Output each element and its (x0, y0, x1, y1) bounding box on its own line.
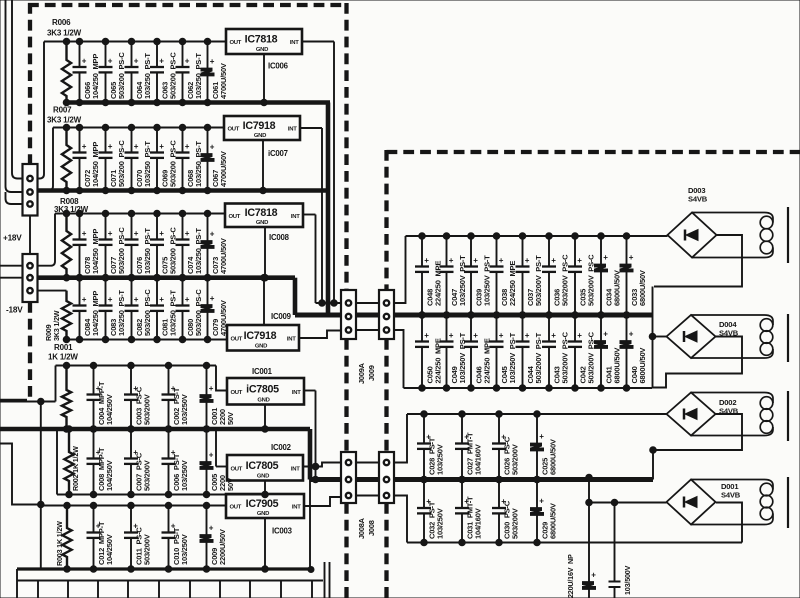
capacitor C077 (99, 210, 127, 281)
capacitor C071 (99, 124, 127, 194)
svg-text:IC009: IC009 (271, 312, 292, 321)
label IC001 (252, 367, 273, 376)
capacitor C002 row5 (162, 362, 190, 432)
wire link J009A-J009 pin 1 (356, 302, 379, 304)
capacitor C042 (568, 312, 596, 392)
resistor R002 (64, 426, 73, 498)
resistor R003 (62, 502, 71, 572)
svg-text:J009: J009 (367, 365, 376, 381)
svg-text:-18V: -18V (6, 306, 23, 315)
svg-text:+: + (134, 57, 139, 66)
svg-text:IC7918: IC7918 (243, 120, 276, 132)
label R007 (53, 106, 72, 115)
svg-text:103/250 PS-T: 103/250 PS-T (194, 141, 203, 187)
svg-text:3K3 1/2W: 3K3 1/2W (52, 310, 61, 341)
svg-text:J009A: J009A (357, 362, 366, 384)
svg-text:OUT: OUT (231, 336, 243, 342)
svg-text:503/200V: 503/200V (511, 444, 520, 475)
wire D004 positive link (653, 336, 667, 338)
svg-text:INT: INT (291, 466, 300, 472)
wire input rail row 4 (67, 339, 228, 341)
capacitor C037 (516, 233, 544, 319)
svg-text:OUT: OUT (230, 40, 242, 46)
label R009 value (52, 310, 61, 341)
svg-text:103/250 PS-T: 103/250 PS-T (143, 53, 152, 99)
svg-text:503/200V: 503/200V (143, 460, 152, 491)
left board dashed border left lower (28, 302, 32, 397)
svg-text:+: + (159, 295, 164, 304)
svg-text:+: + (499, 331, 504, 340)
label R006 (52, 18, 71, 27)
svg-text:+: + (603, 330, 608, 339)
svg-text:6800U/50V: 6800U/50V (613, 348, 622, 384)
svg-text:INT: INT (292, 505, 301, 511)
label 103/500V (623, 565, 632, 595)
svg-text:103/250V PS-T: 103/250V PS-T (458, 255, 467, 306)
svg-text:OUT: OUT (230, 505, 242, 511)
connector J008 (379, 452, 394, 503)
wire IC007 output (300, 127, 322, 129)
capacitor C072 (73, 124, 101, 194)
svg-text:+: + (539, 497, 544, 506)
svg-text:503/200V PS-T: 503/200V PS-T (534, 332, 543, 383)
svg-text:+: + (134, 229, 139, 238)
label IC008 (269, 233, 290, 242)
wire bottom stub 6 (158, 581, 160, 598)
connector J010 (23, 164, 38, 216)
label J008A (357, 517, 366, 539)
svg-text:+: + (629, 330, 634, 339)
svg-text:IC7918: IC7918 (244, 330, 277, 342)
capacitor C069 (150, 124, 178, 194)
capacitor C065 (99, 38, 127, 106)
svg-text:IC7818: IC7818 (245, 34, 278, 46)
wire bottom stub 1 (16, 581, 18, 598)
transformer core line for D004 (787, 314, 789, 362)
capacitor C047 (440, 233, 468, 319)
capacitor C028 right (417, 411, 445, 483)
capacitor C062 (176, 38, 204, 106)
svg-text:+18V: +18V (3, 234, 22, 243)
svg-text:104/250 MPP: 104/250 MPP (91, 142, 100, 187)
svg-text:6800U/50V: 6800U/50V (613, 270, 622, 306)
wire IC008 GND to ground rail (262, 227, 269, 281)
capacitor C033 (620, 233, 647, 319)
wire link J009A-J009 pin 3 (356, 329, 379, 331)
wire ground row 3 drop (thick) (293, 278, 298, 315)
regulator IC002 (227, 455, 303, 481)
svg-text:+: + (209, 451, 214, 460)
wire bottom stub 9 (249, 581, 251, 598)
connector J008A (341, 452, 356, 503)
svg-text:104/250V: 104/250V (105, 534, 114, 565)
svg-text:503/200V PS-C: 503/200V PS-C (561, 331, 570, 383)
label R009 (44, 324, 53, 341)
transformer winding for D004 (691, 315, 773, 358)
svg-text:103/250 PS-T: 103/250 PS-T (194, 228, 203, 274)
capacitor C082 (125, 274, 153, 342)
svg-text:+: + (603, 253, 608, 262)
wire D003/D004 ground drop (649, 287, 656, 389)
capacitor C040 (620, 312, 647, 392)
resistor R008 (62, 210, 71, 281)
transformer core line for D002 (787, 391, 789, 441)
svg-text:+: + (108, 57, 113, 66)
left board dashed border right segment 2 (344, 339, 348, 452)
svg-text:103/250V PS-T: 103/250V PS-T (508, 332, 517, 383)
wire +V rail right row 1 (406, 235, 668, 237)
capacitor C025 (531, 411, 558, 483)
wire +V rail row 1 (44, 41, 226, 43)
svg-text:+: + (82, 57, 87, 66)
svg-text:+: + (159, 57, 164, 66)
regulator IC001 (227, 378, 304, 405)
wire IC009 GND up to ground rail (261, 274, 268, 325)
wire D001 positive link (586, 499, 667, 506)
wire IC001 output (304, 390, 316, 392)
right board dashed border left segment 3 (384, 503, 388, 598)
svg-text:6800U/50V: 6800U/50V (549, 439, 558, 475)
svg-text:103/250V PS-T: 103/250V PS-T (458, 332, 467, 383)
label IC007 (268, 149, 288, 158)
svg-text:104/250 MPP: 104/250 MPP (91, 229, 100, 274)
label C005 voltage (226, 478, 235, 491)
svg-text:104/160V: 104/160V (474, 444, 483, 475)
label C001 voltage (226, 412, 235, 425)
wire ground bus drop to J008A (thick) (308, 429, 313, 480)
wire main ground rail rows 5 (thick) (0, 427, 310, 432)
svg-text:103/250V: 103/250V (180, 460, 189, 491)
capacitor C035 (568, 233, 596, 319)
capacitor C032 right (417, 476, 445, 546)
svg-text:103/250 PS-T: 103/250 PS-T (143, 141, 152, 187)
capacitor C039 (464, 233, 492, 319)
svg-text:2200U/50V: 2200U/50V (218, 529, 227, 565)
regulator IC009 (227, 325, 299, 351)
label C-NP value (566, 554, 575, 598)
wire connector J011 pin 3 to resistor R009 (38, 290, 67, 292)
regulator IC007 (224, 116, 300, 140)
svg-text:GND: GND (254, 133, 266, 139)
svg-text:103/250V PS-T: 103/250V PS-T (483, 255, 492, 306)
capacitor C066 (73, 38, 101, 106)
svg-text:503/200 PS-C: 503/200 PS-C (143, 289, 152, 336)
capacitor C064 (125, 38, 153, 106)
resistor R007 (62, 124, 71, 194)
capacitor 103/500V plates (609, 582, 621, 598)
svg-text:+: + (210, 230, 215, 239)
label D004 type (719, 329, 739, 338)
svg-text:+: + (210, 57, 215, 66)
capacitor C045 (490, 312, 518, 392)
capacitor C079 (201, 274, 228, 342)
label R008 (60, 197, 79, 206)
svg-text:+: + (82, 295, 87, 304)
svg-text:+: + (424, 331, 429, 340)
wire left edge to connector J011 pin 2 (0, 277, 23, 279)
capacitor C034 (595, 233, 622, 319)
svg-text:104/250 MPP: 104/250 MPP (91, 291, 100, 336)
wire bottom stub 10 (280, 581, 282, 598)
wire IC008 output drop (315, 215, 317, 304)
wire row 1 rail drop to connector J010 pin 1 (38, 42, 45, 179)
capacitor C007 row6 (124, 426, 152, 498)
svg-text:+: + (551, 256, 556, 265)
wire IC006 output (302, 41, 334, 43)
label +18V (3, 234, 22, 243)
capacitor C046 (464, 312, 492, 392)
label R008 value (54, 205, 89, 214)
svg-text:IC008: IC008 (269, 233, 290, 242)
svg-text:J008: J008 (367, 520, 376, 536)
capacitor C044 (516, 312, 544, 392)
capacitor C074 (176, 210, 204, 281)
capacitor C050 (415, 312, 443, 392)
capacitor C048 (415, 233, 443, 319)
svg-text:+: + (449, 331, 454, 340)
capacitor C030 right (492, 476, 520, 546)
wire row 3 rail drop to connector J011 pin 1 (38, 214, 56, 266)
wire J008 pin 1 riser (394, 414, 407, 463)
label J009 (367, 365, 376, 381)
svg-text:103/250 PS-T: 103/250 PS-T (143, 228, 152, 274)
connector J009 (379, 290, 394, 339)
wire -V rail right row 2 (404, 387, 653, 389)
svg-text:OUT: OUT (231, 390, 243, 396)
svg-text:+: + (108, 229, 113, 238)
bridge rectifier D004 (667, 315, 716, 358)
capacitor C010 row7 (162, 502, 190, 572)
label D003 type (688, 195, 708, 204)
right board dashed border left segment 1 (384, 150, 388, 290)
wire D002 negative route (650, 414, 742, 480)
svg-text:+: + (209, 384, 214, 393)
wire left feed row 5 (0, 398, 56, 405)
svg-text:+: + (577, 256, 582, 265)
wire IC007 GND to ground rail (260, 140, 267, 194)
bridge rectifier D001 (667, 480, 716, 525)
svg-text:+: + (159, 229, 164, 238)
capacitor C068 (176, 124, 204, 194)
wire bottom stub 7 (189, 581, 191, 598)
resistor R009 (62, 291, 71, 343)
svg-text:503/200 PS-C: 503/200 PS-C (117, 140, 126, 187)
svg-text:103/250V: 103/250V (180, 394, 189, 425)
capacitor C006 row6 (162, 426, 190, 498)
svg-text:1K 1/2W: 1K 1/2W (48, 353, 78, 362)
svg-text:GND: GND (256, 220, 268, 226)
wire bottom pair stub B (329, 562, 331, 598)
capacitor C061 (201, 38, 228, 106)
regulator IC003 (226, 494, 304, 518)
wire into connector J009A pin 1 (316, 300, 342, 307)
capacitor C-NP 220U/16V (583, 571, 597, 598)
wire D003 negative route (654, 235, 742, 287)
wire between left connectors (29, 216, 31, 255)
svg-text:S4VB: S4VB (721, 491, 741, 500)
right board dashed border top (387, 150, 800, 154)
wire IC001 GND to ground rail (262, 405, 269, 433)
label R002 (71, 446, 80, 491)
wire row 2 rail drop to connector J010 pin 2 (38, 128, 54, 191)
svg-text:+: + (525, 331, 530, 340)
label R001 (54, 343, 73, 352)
svg-text:503/200V: 503/200V (143, 534, 152, 565)
svg-text:OUT: OUT (231, 466, 243, 472)
capacitor C073 (201, 210, 228, 281)
wire D004 negative route (652, 337, 742, 388)
svg-text:iC7805: iC7805 (246, 383, 279, 395)
svg-text:R006: R006 (52, 18, 71, 27)
capacitor C031 right (455, 476, 483, 546)
svg-text:IC7818: IC7818 (245, 207, 278, 219)
svg-text:J008A: J008A (357, 517, 366, 539)
svg-text:+: + (185, 142, 190, 151)
svg-text:+: + (210, 294, 215, 303)
svg-text:+: + (185, 295, 190, 304)
svg-text:GND: GND (257, 397, 269, 403)
svg-text:+: + (82, 142, 87, 151)
label J009A (357, 362, 366, 384)
wire drop to C-NP cap (586, 474, 593, 582)
svg-text:+: + (499, 256, 504, 265)
capacitor C011 row7 (124, 502, 152, 572)
wire power feed from top edge into connector J010 pin 1 (12, 0, 23, 179)
capacitor C038 (490, 233, 518, 319)
transformer winding for D001 (691, 480, 773, 525)
svg-text:220U/16V NP: 220U/16V NP (566, 554, 575, 598)
bridge rectifier D002 (667, 393, 716, 436)
capacitor C080 (176, 274, 204, 342)
capacitor C027 right (455, 411, 483, 483)
transformer winding for D002 (691, 393, 773, 436)
svg-text:503/200V: 503/200V (511, 508, 520, 539)
wire ground rows 1-2 drop (thick) (326, 103, 331, 314)
connector J011 (23, 254, 38, 302)
svg-text:IC001: IC001 (252, 367, 273, 376)
svg-text:3K3 1/2W: 3K3 1/2W (47, 29, 82, 38)
capacitor C063 (150, 38, 178, 106)
svg-text:IC006: IC006 (268, 62, 289, 71)
wire link J008A-J008 pin 1 (356, 462, 379, 464)
capacitor C083 (99, 274, 127, 342)
left board dashed border left upper (28, 3, 32, 164)
wire row 5 feed riser (55, 366, 57, 402)
svg-text:GND: GND (255, 343, 267, 349)
capacitor C075 (150, 210, 178, 281)
svg-text:503/200V PS-C: 503/200V PS-C (587, 254, 596, 306)
capacitor C012 row7 (87, 502, 115, 572)
label D002 (719, 398, 736, 407)
label IC003 (272, 527, 293, 536)
label D002 type (719, 407, 739, 416)
svg-text:104/250V: 104/250V (105, 394, 114, 425)
regulator IC006 (226, 29, 302, 54)
svg-text:iC007: iC007 (268, 149, 288, 158)
svg-text:GND: GND (257, 473, 269, 479)
svg-text:503/200 PS-C: 503/200 PS-C (117, 227, 126, 274)
svg-text:+: + (209, 524, 214, 533)
capacitor C005 (200, 426, 227, 498)
left board dashed border right segment 3 (344, 503, 348, 598)
svg-text:GND: GND (256, 47, 268, 53)
wire IC008 output (303, 214, 316, 216)
wire bottom stub 3 (67, 581, 69, 598)
svg-text:103/250 PS-T: 103/250 PS-T (117, 290, 126, 336)
capacitor C078 (73, 210, 101, 281)
capacitor C008 row6 (87, 426, 115, 498)
wire IC007 output drop (321, 128, 323, 303)
transformer winding for D003 (692, 213, 773, 258)
svg-text:S4VB: S4VB (688, 195, 708, 204)
label D003 (688, 186, 705, 195)
capacitor C029 (531, 476, 558, 546)
svg-text:6800U/50V: 6800U/50V (549, 503, 558, 539)
capacitor C009 (200, 502, 227, 572)
wire row 6 left boundary (56, 429, 58, 495)
wire drop to 103/500V cap (614, 503, 616, 582)
label R003 (55, 521, 64, 566)
transformer core line for D003 (787, 207, 789, 263)
wire +V rail right row 3 (407, 413, 667, 415)
svg-text:3K3 1/2W: 3K3 1/2W (47, 116, 82, 125)
svg-text:103/500V: 103/500V (623, 565, 632, 595)
wire input rail row 7 (41, 505, 226, 507)
label -18V (6, 306, 23, 315)
capacitor C036 (542, 233, 570, 319)
svg-text:4700U/50V: 4700U/50V (219, 151, 228, 187)
wire left edge to connector J011 pin 1 (0, 265, 23, 267)
svg-text:+: + (108, 295, 113, 304)
wire IC006 output drop (333, 42, 335, 304)
capacitor C076 (125, 210, 153, 281)
svg-text:+: + (134, 295, 139, 304)
resistor R006 (62, 38, 71, 106)
wire bottom pair stub A (324, 562, 326, 598)
wire rail row 3 (55, 213, 225, 215)
label R006 value (47, 29, 82, 38)
wire ground rail row 3 (thick) (38, 275, 296, 280)
connector J009A (341, 290, 356, 339)
label IC009 (271, 312, 292, 321)
wire ground rail row 2 (thick) (38, 188, 331, 193)
right board dashed border left segment 2 (384, 339, 388, 452)
wire power feed branch into connector J010 pin 3 (6, 192, 23, 204)
wire ground bus tail (309, 480, 311, 570)
wire IC002 GND to bottom rail (262, 481, 269, 498)
capacitor C084 (73, 274, 101, 342)
wire bottom stub 5 (127, 581, 129, 598)
svg-text:IC003: IC003 (272, 527, 293, 536)
svg-text:103/250V: 103/250V (180, 534, 189, 565)
svg-text:+: + (134, 142, 139, 151)
svg-text:INT: INT (290, 40, 299, 46)
svg-text:104/160V: 104/160V (474, 508, 483, 539)
svg-text:503/200 PS-C: 503/200 PS-C (117, 52, 126, 99)
bridge rectifier D003 (668, 213, 717, 258)
wire row 7 bottom rail (17, 567, 314, 573)
label D001 (721, 482, 739, 491)
svg-text:INT: INT (291, 214, 300, 220)
wire bottom stub 11 (311, 581, 313, 598)
svg-text:103/250 PS-T: 103/250 PS-T (169, 290, 178, 336)
svg-text:3K3 1/2W: 3K3 1/2W (54, 205, 89, 214)
svg-text:+: + (185, 57, 190, 66)
svg-text:+: + (551, 331, 556, 340)
svg-text:4700U/50V: 4700U/50V (219, 238, 228, 274)
capacitor C049 (440, 312, 468, 392)
wire bottom stub 4 (97, 581, 99, 598)
